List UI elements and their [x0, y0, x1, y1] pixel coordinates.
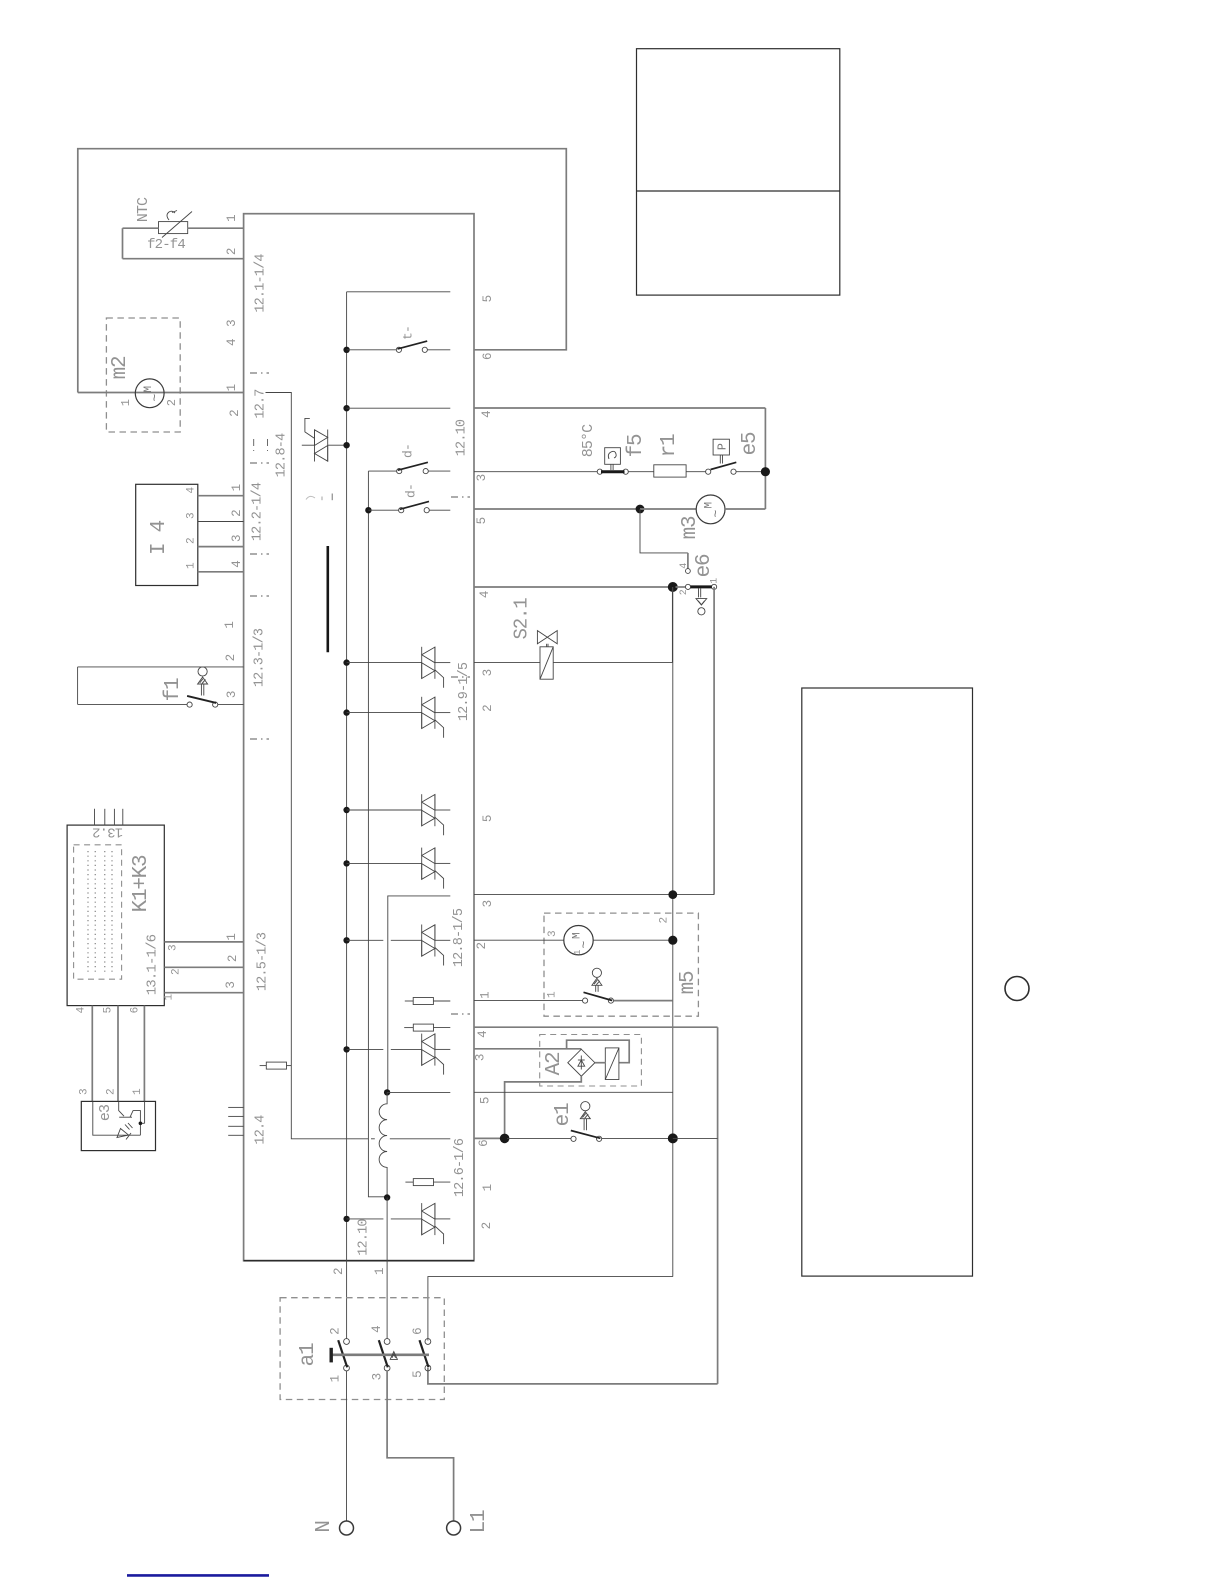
- inner board 12.7 outline: [266, 393, 369, 1139]
- wire e1 node to right drop: [673, 1137, 718, 1139]
- switch d-2 contacts: [399, 508, 404, 513]
- wire NTC top: [123, 227, 159, 229]
- svg-text:12.6-1/6: 12.6-1/6: [453, 1138, 468, 1197]
- svg-text:5: 5: [411, 1371, 425, 1378]
- wire pin 3 heater stat net: [474, 471, 597, 473]
- svg-text:4: 4: [225, 339, 239, 346]
- triac T7 wire: [347, 1048, 384, 1050]
- wire f1 to pin 3: [218, 703, 244, 705]
- svg-text:2: 2: [679, 589, 690, 595]
- svg-text:3: 3: [225, 320, 239, 327]
- wire coil top to pin 5: [387, 1091, 450, 1093]
- svg-text:12.8-4: 12.8-4: [275, 433, 290, 477]
- svg-text:6: 6: [481, 353, 495, 360]
- wire m2 to pin 1 of 12.7: [78, 392, 244, 394]
- e3 internal circuit: [93, 1101, 141, 1135]
- wire I4 pin3: [198, 546, 244, 548]
- svg-text:6: 6: [411, 1328, 425, 1335]
- A2 coil feed loop: [567, 1040, 630, 1063]
- K1+K3 top stubs: [94, 809, 96, 825]
- triac row junction dot 4: [343, 860, 349, 866]
- switch d-2 junction dot: [365, 507, 371, 513]
- svg-text:6: 6: [130, 1007, 142, 1013]
- svg-text:1: 1: [373, 1268, 387, 1275]
- svg-text:1: 1: [186, 562, 198, 569]
- a1 drive triangle mark: [390, 1352, 397, 1360]
- wire pin4 drop to e5 node: [764, 408, 766, 509]
- triac T6: [421, 925, 423, 957]
- wire f1 bottom: [78, 703, 187, 705]
- svg-text:2: 2: [480, 1222, 494, 1229]
- svg-text:12.1-1/4: 12.1-1/4: [254, 254, 269, 313]
- svg-text:1: 1: [573, 950, 583, 955]
- wire a1 contact 6 feed: [428, 1277, 673, 1341]
- A2 rectifier diode mark: [580, 1056, 582, 1070]
- sensor e3 box: [81, 1101, 155, 1150]
- wire K1 pin c to 12.5 pin3: [164, 992, 243, 994]
- thermal cutout f5 bar: [601, 470, 625, 473]
- svg-text:1: 1: [479, 992, 493, 999]
- triac row junction dot 1: [343, 659, 349, 665]
- svg-text:12.7: 12.7: [254, 389, 269, 419]
- triac T7: [421, 1034, 423, 1066]
- svg-text:4: 4: [230, 561, 244, 568]
- K1+K3 pin field dotted rows: [87, 851, 89, 974]
- supply vertical net right: [672, 587, 674, 1277]
- svg-text:S2.1: S2.1: [510, 598, 532, 640]
- triac T6 junction dot: [343, 937, 349, 943]
- triac T4 wire: [347, 809, 422, 811]
- svg-text:1: 1: [119, 399, 133, 406]
- internal bus top rail: [347, 291, 451, 293]
- switch e1 contacts: [571, 1136, 576, 1141]
- svg-text:2: 2: [106, 1089, 118, 1095]
- wire pin 1 to m5 switch: [474, 1000, 583, 1002]
- svg-text:3: 3: [224, 982, 238, 989]
- wire e6 node to contact 2: [676, 586, 686, 588]
- switch d-1 contacts: [397, 469, 402, 474]
- wire NTC bottom to pin 2: [123, 258, 244, 260]
- switch f1 contacts: [187, 702, 192, 707]
- coil bottom junction dot: [384, 1194, 390, 1200]
- wire m3 to e5 node: [725, 508, 765, 510]
- svg-text:e6: e6: [693, 554, 716, 577]
- triac T8: [421, 1203, 423, 1235]
- switch e6 closed bar: [691, 585, 712, 588]
- wire K1 pin b to 12.5 pin2: [164, 966, 243, 968]
- svg-text:5: 5: [481, 815, 495, 822]
- A2 dashed enclosure: [540, 1035, 642, 1087]
- junction dot m5 node: [668, 936, 677, 945]
- wire pin 2 to m5 motor: [474, 939, 564, 941]
- wire e1 to supply node: [602, 1137, 670, 1139]
- svg-text:3: 3: [186, 513, 198, 519]
- svg-text:e3: e3: [97, 1104, 114, 1121]
- svg-text:2: 2: [481, 705, 495, 712]
- heater circuit outer boundary box: [78, 149, 567, 393]
- panel circle marker: [1005, 977, 1029, 1001]
- wire NTC left: [122, 228, 124, 259]
- svg-text:12.3-1/3: 12.3-1/3: [253, 628, 268, 687]
- svg-text:d-: d-: [400, 444, 415, 458]
- wire m3 node to motor: [640, 508, 696, 510]
- triac T5: [421, 848, 423, 880]
- switch e6 contacts 2 and 1: [685, 584, 690, 589]
- svg-text:NTC: NTC: [135, 197, 152, 222]
- triac T2 wire: [347, 662, 422, 664]
- svg-text:2: 2: [228, 410, 242, 417]
- svg-text:2: 2: [171, 969, 183, 975]
- wire pin 4 to e6: [474, 586, 670, 588]
- coil top junction dot: [384, 1089, 390, 1095]
- K1+K3 pin field dashed box: [74, 845, 122, 979]
- motor m5 circle: [564, 926, 593, 955]
- resistor r 1: [654, 465, 686, 477]
- wire a1 contact 5 rail: [428, 1368, 718, 1384]
- junction dot e6 node: [668, 582, 678, 592]
- svg-text:1: 1: [132, 1088, 144, 1095]
- triac T8 wire: [347, 1218, 384, 1220]
- wire pin 5 to m3: [474, 508, 640, 510]
- wire L1 terminal: [387, 1371, 454, 1521]
- pressure switch e5 contacts: [706, 469, 711, 474]
- wire f1 top to pin 2: [78, 666, 244, 668]
- triac 12.8-4: [302, 444, 315, 446]
- svg-text:1: 1: [547, 991, 559, 998]
- wire coil bottom to box pin 1: [386, 1198, 388, 1340]
- internal bus line 2: [368, 471, 387, 1197]
- svg-text:3: 3: [225, 691, 239, 698]
- switch t- junction dot: [343, 347, 349, 353]
- svg-text:2: 2: [475, 942, 489, 949]
- solenoid S2.1 wire pin 3: [474, 661, 540, 663]
- svg-text:12.9-1/5: 12.9-1/5: [457, 662, 472, 721]
- svg-text:a1: a1: [297, 1343, 320, 1366]
- triac T3 wire: [347, 712, 422, 714]
- svg-text:f5: f5: [625, 434, 648, 457]
- svg-text:1: 1: [225, 934, 239, 941]
- title block divider: [637, 190, 840, 192]
- switch d-2 wire: [368, 509, 398, 511]
- internal bus line 1: [346, 292, 348, 1339]
- svg-text:12.8-1/5: 12.8-1/5: [452, 908, 467, 967]
- motor m2 dashed enclosure: [106, 318, 180, 432]
- svg-text:1: 1: [164, 993, 176, 1000]
- svg-text:2: 2: [659, 917, 671, 923]
- a1 contact circles top: [344, 1339, 350, 1345]
- svg-text:5: 5: [479, 1097, 493, 1104]
- pressure switch e5 P box: [713, 439, 729, 455]
- svg-text:f1: f1: [162, 678, 185, 701]
- switch e1 lever: [571, 1131, 601, 1139]
- triac T2: [421, 647, 423, 679]
- svg-text:4: 4: [186, 486, 198, 493]
- pressure switch e5 lever: [711, 462, 737, 469]
- solenoid S2.1 coil: [540, 647, 553, 679]
- svg-text:m3: m3: [679, 516, 702, 539]
- triac T4: [421, 794, 423, 826]
- svg-text:12.10: 12.10: [357, 1219, 372, 1256]
- svg-text:1: 1: [225, 384, 239, 391]
- power switch a1 dashed enclosure: [280, 1298, 444, 1400]
- svg-text:12.4: 12.4: [254, 1115, 269, 1145]
- svg-text:L1: L1: [468, 1510, 491, 1533]
- thermal cutout f5 head box: [605, 448, 621, 465]
- switch f1 lever: [187, 696, 216, 703]
- svg-text:4: 4: [76, 1006, 88, 1013]
- faint marks: [306, 496, 315, 499]
- svg-text:12.10: 12.10: [455, 419, 470, 456]
- wire m5 motor to node: [593, 939, 673, 941]
- svg-text:1: 1: [225, 215, 239, 222]
- wire K1 bottom stub 4: [91, 1006, 93, 1102]
- svg-text:2: 2: [329, 1328, 343, 1335]
- blue footer link line: [127, 1574, 269, 1577]
- A2 rectifier diamond: [568, 1049, 595, 1076]
- svg-text:4: 4: [679, 563, 690, 569]
- wire pin 3 lower: [474, 894, 670, 896]
- svg-text:A2: A2: [543, 1052, 566, 1075]
- svg-text:2: 2: [332, 1268, 346, 1275]
- svg-text:f2-f4: f2-f4: [147, 237, 185, 253]
- triac T6 wire: [347, 939, 384, 941]
- svg-text:12.2-1/4: 12.2-1/4: [251, 482, 266, 541]
- pump m5 dashed enclosure: [544, 913, 698, 1016]
- wire pin 6 to e1: [474, 1137, 502, 1139]
- triac row junction dot 2: [343, 709, 349, 715]
- svg-text:~: ~: [147, 394, 162, 402]
- switch m5 lever: [584, 992, 613, 1000]
- svg-text:~: ~: [576, 941, 591, 949]
- wire S2.1 to supply vertical: [553, 587, 672, 662]
- motor m3 circle: [696, 495, 725, 524]
- wire pin 4 right: [474, 407, 765, 409]
- svg-text:e5: e5: [739, 432, 762, 455]
- svg-text:1: 1: [709, 578, 720, 584]
- group separator dash-dot marks left edge: [250, 372, 269, 374]
- wire inner to pin 6: [390, 1138, 451, 1140]
- svg-text:e1: e1: [552, 1103, 575, 1126]
- resistor 12.4 internal: [260, 1065, 267, 1067]
- svg-text:~: ~: [708, 510, 723, 518]
- svg-text:K1+K3: K1+K3: [130, 855, 153, 912]
- switch m5 contacts: [583, 998, 588, 1003]
- svg-text:1: 1: [481, 1184, 495, 1191]
- large right panel box: [802, 688, 973, 1276]
- svg-text:d-: d-: [403, 484, 418, 498]
- triac 12.8-4 junction dot: [343, 442, 349, 448]
- a1 levers: [338, 1340, 347, 1367]
- junction dot e1 node: [668, 1133, 678, 1143]
- resistor internal R1027: [404, 1027, 413, 1029]
- svg-text:M: M: [143, 386, 155, 392]
- triac T8 junction dot: [343, 1216, 349, 1222]
- wire bus to pin 4: [347, 407, 451, 409]
- junction dot A2 node: [500, 1134, 510, 1144]
- switch t- wire: [347, 349, 397, 351]
- wire r1 to e5: [686, 471, 706, 473]
- switch t- lever: [398, 341, 428, 349]
- svg-text:3: 3: [168, 945, 180, 951]
- svg-text:4: 4: [370, 1326, 384, 1333]
- motor m2 circle: [135, 379, 164, 408]
- svg-text:3: 3: [79, 1089, 91, 1095]
- thermistor f2-f4 body: [159, 222, 188, 234]
- wire pin 3 to A2 bridge: [474, 1048, 581, 1050]
- wire e5 to node: [736, 471, 765, 473]
- wire pin 4 long to right drop: [474, 1026, 718, 1028]
- svg-text:4: 4: [476, 1031, 490, 1038]
- solenoid S2.1 valve symbol: [537, 631, 547, 644]
- svg-text:1: 1: [230, 484, 244, 491]
- svg-text:3: 3: [371, 1373, 385, 1380]
- e6 drop to node3 jog: [673, 894, 714, 896]
- wire diamond to coil: [595, 1062, 605, 1064]
- svg-text:2: 2: [186, 538, 198, 544]
- resistor internal R1001: [405, 1000, 413, 1002]
- A2 relay coil: [605, 1048, 619, 1080]
- heavy black stub line: [326, 546, 329, 652]
- svg-text:2: 2: [230, 510, 244, 517]
- svg-text:4: 4: [480, 411, 494, 418]
- wire m3 node down to e6 top contact: [640, 509, 688, 553]
- triac row junction dot 3: [343, 807, 349, 813]
- svg-text:5: 5: [475, 517, 489, 524]
- svg-text:N: N: [313, 1521, 336, 1532]
- svg-text:13.2: 13.2: [92, 823, 123, 839]
- svg-text:2: 2: [225, 248, 239, 255]
- wire m5 switch to vertical: [614, 1000, 673, 1002]
- svg-text:1: 1: [223, 622, 237, 629]
- connector I4 box: [136, 484, 198, 585]
- 12.4 stub pins: [228, 1106, 243, 1108]
- svg-text:I 4: I 4: [148, 520, 171, 555]
- thermal cutout f5 contacts: [597, 469, 602, 474]
- wire I4 pin2: [198, 521, 244, 523]
- switch e6 actuator: [698, 588, 700, 597]
- switch e1 pushbutton: [581, 1102, 590, 1111]
- svg-text:3: 3: [474, 1054, 488, 1061]
- wire I4 pin1: [198, 495, 244, 497]
- wire K1 bottom stub 5: [117, 1006, 119, 1102]
- title block box top-right: [637, 49, 840, 295]
- wire A2 node to e1 switch: [507, 1137, 571, 1139]
- svg-text:M: M: [704, 502, 716, 508]
- svg-text:3: 3: [230, 535, 244, 542]
- switch e6 contact 4: [686, 569, 691, 574]
- svg-text:t-: t-: [400, 326, 415, 340]
- switch m5 pushbutton: [592, 968, 601, 977]
- switch d-2 lever: [400, 501, 429, 509]
- wire K1 bottom stub 6: [143, 1006, 145, 1102]
- svg-text:3: 3: [481, 900, 495, 907]
- A2 bridge lower output: [505, 1076, 582, 1136]
- svg-text:2: 2: [224, 654, 238, 661]
- terminal L1 circle: [447, 1521, 461, 1535]
- wire f1 left: [77, 667, 79, 705]
- e3 LED: [117, 1129, 129, 1138]
- relay module K1+K3 box: [67, 825, 164, 1006]
- switch f1 pushbutton: [198, 667, 207, 676]
- right drop vertical to a1 contact 5 rail: [717, 1027, 719, 1384]
- resistor internal R1182: [405, 1181, 413, 1183]
- wire pin 5 to supply vertical: [474, 1091, 673, 1093]
- wire f5 to r1: [628, 471, 654, 473]
- triac T7 junction dot: [343, 1046, 349, 1052]
- terminal N circle: [340, 1521, 354, 1535]
- wire I4 pin4: [198, 571, 244, 573]
- a1 contact circles bottom: [344, 1365, 350, 1371]
- junction dot e5 node: [761, 467, 770, 476]
- wire e6 contact 4 stub: [687, 553, 689, 569]
- e6 contact 1 drop wire: [713, 587, 715, 895]
- svg-text:3: 3: [475, 474, 489, 481]
- svg-text:13.1-1/6: 13.1-1/6: [145, 934, 161, 995]
- triac T5 wire: [347, 862, 422, 864]
- wire N terminal: [346, 1371, 348, 1521]
- svg-text:M: M: [572, 933, 584, 939]
- svg-text:6: 6: [477, 1140, 491, 1147]
- switch d-1 wire: [368, 470, 396, 472]
- svg-text:12.5-1/3: 12.5-1/3: [256, 932, 271, 991]
- switch d-1 lever: [398, 462, 428, 470]
- svg-text:m2: m2: [109, 356, 132, 379]
- junction dot node3: [668, 890, 677, 899]
- svg-text:5: 5: [481, 295, 495, 302]
- group separator dash-dot marks right edge: [451, 496, 470, 498]
- junction dot m3 node: [636, 505, 645, 514]
- controller main box 12: [244, 214, 474, 1261]
- triac T3: [421, 697, 423, 729]
- svg-text:2: 2: [226, 955, 240, 962]
- svg-text:3: 3: [547, 931, 559, 937]
- switch t- contacts: [396, 347, 401, 352]
- svg-text:2: 2: [165, 399, 179, 406]
- svg-text:3: 3: [481, 669, 495, 676]
- inner board 12.8-1/5 outline: [388, 896, 451, 1093]
- svg-text:5: 5: [103, 1007, 115, 1013]
- svg-text:r1: r1: [658, 434, 681, 457]
- a1 drive bar: [331, 1354, 429, 1357]
- svg-text:P: P: [716, 443, 730, 450]
- svg-text:1: 1: [329, 1375, 343, 1382]
- inductor coil 12.6: [379, 1092, 387, 1197]
- bus dot pin4 rail: [343, 405, 349, 411]
- controller box bottom edge: [244, 1260, 474, 1262]
- svg-text:m5: m5: [677, 971, 700, 994]
- svg-text:4: 4: [478, 591, 492, 598]
- wire K1 pin a to 12.5 pin1: [164, 941, 243, 943]
- svg-text:85°C: 85°C: [580, 424, 597, 457]
